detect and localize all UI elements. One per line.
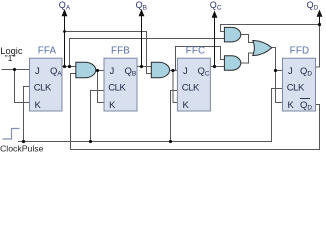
svg-text:CLK: CLK <box>182 82 200 93</box>
svg-text:FFC: FFC <box>186 46 206 57</box>
svg-text:K: K <box>183 100 190 111</box>
svg-text:K: K <box>35 100 42 111</box>
svg-text:FFB: FFB <box>111 46 130 57</box>
svg-text:FFA: FFA <box>38 46 57 57</box>
svg-text:K: K <box>109 100 116 111</box>
svg-text:J: J <box>288 66 293 77</box>
svg-text:J: J <box>183 66 188 77</box>
svg-text:K: K <box>288 100 295 111</box>
svg-text:CLK: CLK <box>34 82 52 93</box>
svg-text:CLK: CLK <box>108 82 126 93</box>
svg-text:ClockPulse: ClockPulse <box>0 143 44 153</box>
svg-text:J: J <box>110 66 115 77</box>
svg-text:"1": "1" <box>5 53 16 63</box>
svg-text:CLK: CLK <box>287 82 305 93</box>
svg-text:FFD: FFD <box>290 46 310 57</box>
svg-text:J: J <box>35 66 40 77</box>
